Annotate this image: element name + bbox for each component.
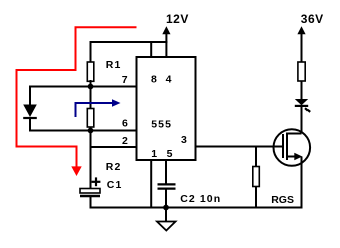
- LED D2: [295, 99, 308, 134]
- gate bar: [282, 134, 284, 158]
- wire pin 2: [91, 146, 137, 148]
- channel bar: [286, 133, 288, 161]
- resistor R2: [87, 87, 94, 131]
- annotation blue path: [76, 103, 114, 117]
- svg-text:8: 8: [151, 74, 158, 86]
- ground: [157, 208, 176, 231]
- supply arrow 12V: [162, 26, 170, 57]
- annotation red arrowhead: [71, 166, 81, 176]
- svg-text:R1: R1: [106, 59, 122, 71]
- svg-text:4: 4: [166, 74, 173, 86]
- LED emission arrows: [305, 108, 310, 112]
- source link with arrow: [286, 156, 297, 158]
- diode D1: [23, 87, 37, 131]
- source down wire: [301, 157, 303, 209]
- wire pin 7: [29, 86, 137, 88]
- svg-text:12V: 12V: [166, 12, 189, 26]
- wire vertical to C1: [90, 131, 92, 189]
- node junction pin7: [88, 84, 94, 90]
- drain link: [286, 133, 302, 135]
- svg-text:C1: C1: [107, 179, 123, 191]
- wire pin 8 stub: [150, 42, 152, 57]
- resistor RGS: [253, 147, 259, 208]
- annotation red path: [17, 27, 137, 168]
- capacitor C1: [80, 189, 100, 208]
- svg-text:R2: R2: [106, 161, 122, 173]
- transistor Q1 MOSFET: [274, 129, 311, 208]
- svg-text:RGS: RGS: [271, 194, 294, 206]
- svg-text:7: 7: [122, 74, 129, 86]
- wire top rail: [90, 41, 168, 43]
- svg-text:2: 2: [122, 135, 129, 147]
- svg-text:36V: 36V: [301, 12, 324, 26]
- svg-text:C2 10n: C2 10n: [180, 193, 221, 205]
- op-amp / IC U1 555 body: [137, 57, 196, 160]
- svg-text:6: 6: [122, 118, 129, 130]
- wire pin 6: [29, 130, 137, 132]
- svg-text:5: 5: [167, 148, 174, 160]
- supply arrow 36V: [297, 26, 305, 62]
- resistor R1: [87, 62, 94, 88]
- node junction ground: [163, 205, 169, 211]
- node junction pin6: [88, 128, 94, 134]
- svg-text:555: 555: [151, 119, 172, 131]
- wire pin 1: [150, 160, 152, 208]
- capacitor C2: [158, 160, 176, 208]
- wire R1 top lead: [90, 41, 92, 62]
- wire pin 3 to gate: [196, 146, 284, 148]
- wire bottom rail: [90, 207, 303, 209]
- svg-text:3: 3: [181, 134, 188, 146]
- label C1 plus sign: [92, 177, 101, 186]
- svg-text:1: 1: [151, 148, 158, 160]
- resistor R load: [298, 62, 305, 100]
- annotation blue arrowhead: [112, 99, 121, 107]
